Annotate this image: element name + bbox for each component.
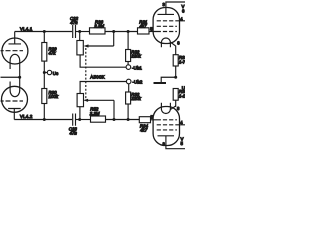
resistor R30 bbox=[42, 89, 47, 104]
wire R35 to bottom cathode bbox=[175, 100, 177, 107]
resistor R32b bbox=[126, 92, 131, 104]
VL4.1 cathode lead bbox=[19, 60, 21, 77]
resistor R29 bbox=[42, 43, 47, 62]
VL6.1 filament legs bbox=[161, 42, 170, 47]
svg-text:1-7: 1-7 bbox=[179, 60, 185, 65]
svg-text:1-1: 1-1 bbox=[179, 94, 185, 99]
terminal Ub2 bbox=[126, 79, 131, 84]
wire pot2 top to Ub2 bbox=[80, 82, 126, 94]
node pot1 top bbox=[78, 30, 81, 33]
VL6.1 control grid g1 bbox=[154, 31, 177, 33]
VL6.2 cathode lead bbox=[170, 106, 175, 110]
svg-text:220k: 220k bbox=[130, 54, 141, 59]
resistor R32 bbox=[126, 50, 131, 62]
VL6.2 grid g3 bbox=[157, 129, 177, 131]
VL4.1 anode bbox=[9, 32, 22, 44]
gang link dashed bbox=[85, 48, 87, 100]
wire Ub2 to R32b bbox=[128, 84, 130, 92]
VL6.2 control grid g1 bbox=[154, 119, 177, 121]
resistor R35 bbox=[173, 89, 178, 101]
triode VL4.2 envelope bbox=[2, 86, 28, 112]
VL4.2 filament bbox=[10, 91, 20, 97]
wire R32b to bottom rail bbox=[127, 104, 129, 120]
wire cathode to left edge bbox=[1, 76, 20, 78]
svg-text:47n: 47n bbox=[70, 131, 78, 136]
ground bbox=[154, 82, 167, 84]
wire R32 to Ub1 circle bbox=[127, 62, 129, 65]
VL6.1 grid g2 bbox=[157, 25, 177, 27]
cathode node right bbox=[174, 76, 177, 79]
node R29 top bbox=[43, 30, 46, 33]
wire R29 to Uc node bbox=[43, 61, 45, 88]
VL4.1 grid bbox=[1, 50, 24, 52]
node pot2 bottom bbox=[78, 118, 81, 121]
wire R33 to cathode node bbox=[175, 66, 177, 77]
svg-text:VL4.1: VL4.1 bbox=[20, 27, 33, 32]
pot2 wiper arrow bbox=[88, 99, 114, 101]
svg-text:A500K: A500K bbox=[90, 75, 105, 80]
capacitor C22 bbox=[73, 25, 76, 38]
node 220k bottom bbox=[127, 118, 130, 121]
node 220k top bbox=[127, 30, 130, 33]
pentode VL6.2 envelope bbox=[153, 107, 179, 146]
svg-text:4k7: 4k7 bbox=[140, 128, 148, 133]
VL6.2 filament bbox=[161, 109, 170, 114]
capacitor C23 bbox=[73, 114, 76, 126]
svg-text:VL4.2: VL4.2 bbox=[20, 114, 33, 119]
wire R30 to bottom rail bbox=[43, 104, 45, 120]
svg-text:47n: 47n bbox=[70, 20, 78, 25]
svg-text:Uc: Uc bbox=[53, 71, 59, 76]
resistor R34 bbox=[139, 117, 150, 123]
wire to ground bbox=[161, 77, 176, 82]
VL6.1 cathode lead bbox=[170, 42, 175, 55]
svg-text:8: 8 bbox=[177, 41, 180, 46]
VL4.2 anode bbox=[8, 109, 21, 120]
VL6.2 filament legs bbox=[161, 103, 170, 110]
VL6.1 anode bbox=[158, 2, 186, 14]
wire top rail from VL4.1 anode to C22 bbox=[15, 31, 72, 33]
wire R31 to tube grid bbox=[149, 31, 154, 33]
terminal Uc bbox=[44, 72, 47, 74]
wire bottom rail C23 to 2.2M bbox=[76, 119, 91, 121]
VL4.1 filament left leg bbox=[9, 60, 11, 69]
VL4.2 grid bbox=[1, 100, 24, 102]
potentiometer R28b body bbox=[77, 94, 83, 107]
resistor R36 2.2M bbox=[91, 116, 106, 122]
wire pot2 wiper down to rail bbox=[113, 100, 115, 119]
VL4.1 filament bbox=[10, 54, 20, 60]
potentiometer R28 body bbox=[77, 41, 83, 55]
VL6.2 anode bbox=[158, 136, 186, 149]
svg-text:8: 8 bbox=[177, 106, 180, 111]
wire pot1 top lead bbox=[79, 32, 81, 41]
wire pot1 wiper up to rail bbox=[113, 32, 115, 47]
svg-text:-Ub2: -Ub2 bbox=[133, 80, 143, 85]
svg-text:2.2M: 2.2M bbox=[93, 23, 104, 28]
resistor R26 2.2M bbox=[90, 28, 106, 34]
wire R34 to tube grid bbox=[151, 119, 155, 121]
wire top rail 2.2M box to R31 bbox=[105, 31, 138, 33]
svg-text:3: 3 bbox=[163, 2, 166, 7]
svg-text:2.2M: 2.2M bbox=[89, 111, 100, 116]
VL6.2 grid g2 bbox=[157, 124, 186, 126]
wire to R32 bbox=[127, 32, 129, 50]
terminal Ub1 bbox=[126, 65, 131, 70]
pot1 wiper arrow bbox=[88, 45, 113, 47]
VL6.1 grid g3 bbox=[157, 20, 186, 22]
VL4.2 cathode lead bbox=[19, 77, 21, 91]
wire pot1 bottom to Ub1 bbox=[80, 55, 126, 67]
resistor R33 bbox=[173, 55, 178, 66]
resistor R31 bbox=[138, 28, 150, 34]
node Uc bbox=[43, 71, 46, 74]
wire bottom rail from VL4.2 anode to C23 bbox=[14, 119, 72, 121]
node R30 bottom bbox=[43, 118, 46, 121]
cathode junction node bbox=[18, 76, 21, 79]
wire top rail C22 to pot junction bbox=[76, 31, 90, 33]
wire pot2 bottom lead bbox=[79, 107, 81, 120]
node wiper top bbox=[112, 30, 115, 33]
pentode VL6.1 envelope bbox=[153, 8, 179, 44]
svg-text:4k7: 4k7 bbox=[140, 23, 148, 28]
svg-text:-Ub1: -Ub1 bbox=[132, 65, 142, 70]
node wiper bottom bbox=[113, 118, 116, 121]
wire top rail to R29 bbox=[43, 32, 45, 43]
svg-text:220k: 220k bbox=[130, 96, 141, 101]
svg-text:6: 6 bbox=[182, 8, 185, 13]
wire bottom rail 2.2M to R34 bbox=[106, 119, 140, 121]
svg-text:100k: 100k bbox=[49, 94, 59, 99]
VL6.1 filament bbox=[161, 38, 170, 43]
svg-text:47k: 47k bbox=[49, 51, 57, 56]
svg-text:5: 5 bbox=[181, 141, 184, 146]
triode VL4.1 envelope bbox=[2, 38, 28, 64]
VL4.2 filament left leg bbox=[9, 82, 11, 92]
